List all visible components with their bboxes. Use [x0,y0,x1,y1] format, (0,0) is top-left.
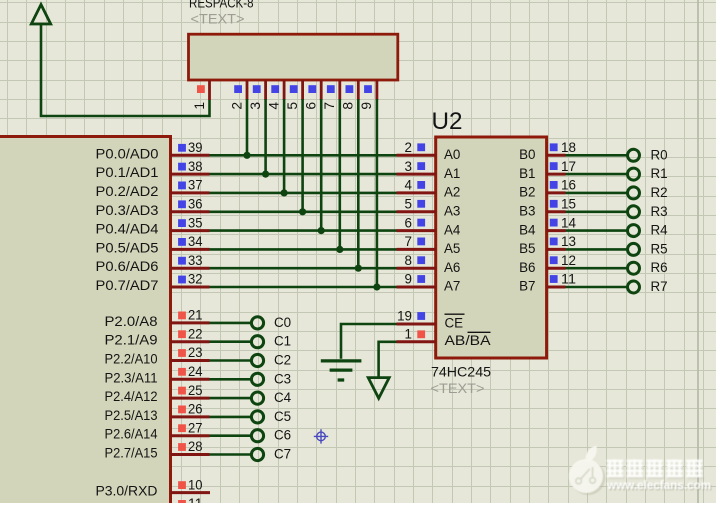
svg-text:P2.7/A15: P2.7/A15 [105,446,158,461]
svg-text:1: 1 [192,102,207,110]
svg-text:AB/BA: AB/BA [445,333,491,348]
RESPACK pin 2 square (blue) [234,85,242,93]
U2 pin 12 stub [547,267,566,270]
terminal circle C2 [251,354,263,366]
U2 pin 17 square (blue) [550,162,558,170]
svg-text:P2.3/A11: P2.3/A11 [105,370,158,385]
junction node [355,265,362,272]
wire RESPACK pin 3 down to bus row [264,99,267,174]
RESPACK pin 5 square (blue) [290,85,298,93]
wire B0 to terminal R0 [566,154,627,157]
svg-text:A2: A2 [444,185,460,200]
svg-text:C6: C6 [274,428,291,443]
MCU pin 22 square (red) [178,330,186,338]
svg-text:11: 11 [188,496,203,503]
MCU pin 32 stub [171,286,210,289]
U2 pin 8 square (blue) [417,256,425,264]
svg-text:C7: C7 [274,447,291,462]
U2 pin 9 stub [397,286,436,289]
U2 pin 19 stub (CE) [397,323,436,326]
U2 pin 6 stub [397,229,436,232]
RESPACK pin 1 stub [208,80,211,100]
sheet edge line [697,0,699,503]
svg-text:R0: R0 [651,147,668,162]
svg-text:P2.5/A13: P2.5/A13 [105,408,158,423]
terminal circle R2 [628,187,640,199]
RESPACK pin 4 stub [283,80,286,100]
svg-text:B2: B2 [519,185,535,200]
MCU pin 38 square (blue) [178,163,186,171]
junction node [262,171,269,178]
wire P0.0 to U2 A0 [210,154,397,157]
svg-text:13: 13 [561,234,576,249]
U2 pin 13 square (blue) [550,238,558,246]
svg-text:A4: A4 [444,222,461,237]
U2 pin 4 square (blue) [417,181,425,189]
U2 pin 19 square (blue) [417,312,425,320]
MCU pin 38 stub [171,173,210,176]
svg-text:C0: C0 [274,315,291,330]
svg-text:21: 21 [188,308,203,323]
svg-text:R2: R2 [651,185,668,200]
svg-text:B3: B3 [519,204,535,219]
svg-text:33: 33 [188,253,203,268]
svg-text:14: 14 [561,215,577,230]
svg-text:2: 2 [229,102,244,110]
wire P0.6 to U2 A6 [210,267,397,270]
U2 pin 7 stub [397,248,436,251]
svg-text:11: 11 [561,272,576,287]
U2 pin 7 square (blue) [417,238,425,246]
RESPACK pin 3 stub [264,80,267,100]
MCU pin 33 stub [171,267,210,270]
MCU pin 26 stub [171,415,210,418]
svg-text:R7: R7 [651,279,668,294]
RESPACK pin 1 square (red) [197,85,205,93]
U2 pin 3 stub [397,173,436,176]
MCU pin 23 stub [171,359,210,362]
RESPACK pin 5 stub [301,80,304,100]
svg-text:28: 28 [188,439,203,454]
svg-text:A0: A0 [444,147,460,162]
wire P2.7 to terminal C7 [210,453,251,456]
U2 pin 12 square (blue) [550,256,558,264]
svg-text:C3: C3 [274,371,291,386]
RESPACK pin 8 square (blue) [346,85,354,93]
RESPACK pin 7 square (blue) [327,85,335,93]
MCU pin 37 stub [171,191,210,194]
svg-text:34: 34 [188,234,203,249]
U2 pin 16 square (blue) [550,181,558,189]
wire B4 to terminal R4 [566,229,627,232]
wire from power arrow to RESPACK pin 1 [41,24,210,116]
svg-text:B5: B5 [519,241,535,256]
MCU pin 25 stub [171,397,210,400]
svg-text:P0.6/AD6: P0.6/AD6 [96,259,159,274]
MCU pin 23 square (red) [178,349,186,357]
svg-text:38: 38 [188,159,203,174]
svg-text:P0.7/AD7: P0.7/AD7 [96,278,159,293]
power terminal arrow (top-left) [31,5,50,25]
svg-text:C1: C1 [274,334,291,349]
wire RESPACK pin 4 down to bus row [283,99,286,193]
wire RESPACK pin 7 down to bus row [338,99,341,249]
MCU pin 24 stub [171,378,210,381]
svg-text:5: 5 [405,197,412,212]
MCU chip U1 body (cropped at left/bottom) [0,137,171,508]
svg-text:5: 5 [285,102,300,110]
wire P2.0 to terminal C0 [210,322,251,325]
terminal circle R7 [628,281,640,293]
RESPACK pin 8 stub [357,80,360,100]
svg-text:B7: B7 [519,279,535,294]
MCU pin 36 square (blue) [178,200,186,208]
wire P2.2 to terminal C2 [210,359,251,362]
terminal circle C4 [251,392,263,404]
svg-text:37: 37 [188,178,203,193]
svg-text:A5: A5 [444,241,460,256]
U2 pin 14 stub [547,229,566,232]
MCU pin 28 stub [171,453,210,456]
terminal circle R5 [628,243,640,255]
svg-text:2: 2 [405,140,412,155]
U2 pin 17 stub [547,173,566,176]
wire P2.3 to terminal C3 [210,378,251,381]
wire P2.6 to terminal C6 [210,434,251,437]
wire B7 to terminal R7 [566,286,627,289]
terminal circle C3 [251,373,263,385]
MCU pin 37 square (blue) [178,182,186,190]
MCU pin 39 square (blue) [178,144,186,152]
MCU pin 21 stub [171,321,210,324]
MCU pin 10 stub [171,491,211,494]
MCU pin 36 stub [171,210,210,213]
svg-text:8: 8 [405,253,412,268]
svg-text:P2.0/A8: P2.0/A8 [105,314,158,329]
RESPACK pin 4 square (blue) [271,85,279,93]
MCU pin 25 square (red) [178,387,186,395]
svg-text:P0.5/AD5: P0.5/AD5 [96,240,159,255]
svg-text:3: 3 [248,102,263,110]
junction node [373,283,380,290]
MCU pin 34 stub [171,248,210,251]
terminal circle C6 [251,430,263,442]
svg-text:B6: B6 [519,260,535,275]
wire B3 to terminal R3 [566,211,627,214]
svg-text:<TEXT>: <TEXT> [191,11,245,26]
wire RESPACK pin 9 down to bus row [376,99,379,287]
U2 pin 3 square (blue) [417,162,425,170]
svg-text:P2.1/A9: P2.1/A9 [105,333,158,348]
svg-text:RESPACK-8: RESPACK-8 [189,0,254,11]
U2 pin 6 square (blue) [417,219,425,227]
U2 pin 18 stub [547,154,566,157]
svg-text:15: 15 [561,197,576,212]
svg-text:R3: R3 [651,204,668,219]
svg-text:R6: R6 [651,260,668,275]
U2 pin 5 stub [397,210,436,213]
MCU pin 24 square (red) [178,368,186,376]
svg-text:P0.0/AD0: P0.0/AD0 [96,146,159,161]
terminal circle R6 [628,262,640,274]
U2 pin 5 square (blue) [417,200,425,208]
U2 pin 9 square (blue) [417,275,425,283]
svg-text:9: 9 [405,272,412,287]
svg-text:B4: B4 [519,222,536,237]
RESPACK pin 6 square (blue) [308,85,316,93]
U2 pin 18 square (blue) [550,143,558,151]
svg-text:A7: A7 [444,279,460,294]
junction node [318,227,325,234]
svg-text:36: 36 [188,197,203,212]
svg-text:www.elecfans.com: www.elecfans.com [606,478,711,492]
svg-text:3: 3 [405,159,412,174]
wire P0.4 to U2 A4 [210,229,397,232]
svg-text:B0: B0 [519,147,535,162]
terminal circle R3 [628,206,640,218]
wire P0.5 to U2 A5 [210,248,397,251]
ground symbol [321,361,362,380]
wire P2.1 to terminal C1 [210,340,251,343]
wire pin19 to ground [341,324,397,359]
svg-text:17: 17 [561,159,576,174]
svg-text:12: 12 [561,253,576,268]
U2 pin 11 stub [547,286,566,289]
MCU pin 32 square (blue) [178,276,186,284]
svg-text:16: 16 [561,178,576,193]
MCU pin 26 square (red) [178,406,186,414]
svg-text:P0.4/AD4: P0.4/AD4 [96,222,160,237]
U2 pin 14 square (blue) [550,219,558,227]
wire P0.2 to U2 A2 [210,192,397,195]
svg-text:32: 32 [188,272,203,287]
U2 pin 11 square (blue) [550,275,558,283]
svg-text:P2.6/A14: P2.6/A14 [105,427,159,442]
svg-text:C4: C4 [274,390,292,405]
RESPACK pin 9 stub [375,80,378,100]
wire B5 to terminal R5 [566,248,627,251]
MCU pin 10 square (red) [178,481,186,489]
svg-text:18: 18 [561,140,576,155]
terminal circle R0 [628,149,640,161]
origin marker crosshair [314,429,328,443]
wire pin1 to arrow terminal [379,342,397,378]
svg-text:C5: C5 [274,409,291,424]
svg-text:8: 8 [341,102,356,110]
svg-text:4: 4 [405,178,413,193]
wire RESPACK pin 2 down to bus row [246,99,249,155]
MCU pin 27 square (red) [178,424,186,432]
junction node [281,189,288,196]
wire B2 to terminal R2 [566,192,627,195]
MCU pin 33 square (blue) [178,257,186,265]
MCU pin 35 square (blue) [178,219,186,227]
MCU pin 21 square (red) [178,312,186,320]
U2 pin 2 square (blue) [417,143,425,151]
MCU pin 28 square (red) [178,443,186,451]
wire P0.7 to U2 A7 [210,286,397,289]
svg-text:R4: R4 [651,223,669,238]
svg-text:B1: B1 [519,166,535,181]
terminal circle R4 [628,225,640,237]
MCU pin 11 square (red, clipped at bottom) [178,500,186,508]
svg-text:35: 35 [188,215,203,230]
svg-text:U2: U2 [432,108,463,135]
svg-text:CE: CE [445,316,464,331]
svg-text:7: 7 [405,234,412,249]
svg-text:26: 26 [188,402,203,417]
wire P0.1 to U2 A1 [210,173,397,176]
MCU pin 27 stub [171,434,210,437]
wire B1 to terminal R1 [566,173,627,176]
MCU pin 35 stub [171,229,210,232]
U2 pin 1 square (red) [417,330,425,338]
svg-text:P3.0/RXD: P3.0/RXD [96,484,158,499]
terminal circle C0 [251,317,263,329]
RESPACK pin 2 stub [246,80,249,100]
RESPACK pin 9 square (blue) [364,85,372,93]
junction node [243,152,250,159]
svg-text:9: 9 [359,102,374,110]
svg-text:4: 4 [266,102,281,110]
resistor pack RP1 RESPACK-8 body [189,34,398,80]
U2 pin 8 stub [397,267,436,270]
terminal circle C5 [251,411,263,423]
svg-text:7: 7 [322,102,337,110]
MCU pin 34 square (blue) [178,238,186,246]
U2 pin 16 stub [547,191,566,194]
junction node [299,208,306,215]
svg-text:P0.1/AD1: P0.1/AD1 [96,165,159,180]
U2 pin 13 stub [547,248,566,251]
svg-text:R5: R5 [651,241,668,256]
MCU pin 22 stub [171,340,210,343]
svg-text:<TEXT>: <TEXT> [431,381,485,396]
junction node [336,246,343,253]
svg-text:P0.2/AD2: P0.2/AD2 [96,184,159,199]
wire P2.5 to terminal C5 [210,416,251,419]
svg-text:25: 25 [188,383,203,398]
svg-text:39: 39 [188,140,203,155]
IC U2 74HC245 body [436,137,547,358]
svg-text:6: 6 [304,102,319,110]
svg-text:1: 1 [405,327,412,342]
wire RESPACK pin 6 down to bus row [320,99,323,231]
arrow terminal (down) [368,378,389,399]
RESPACK pin 7 stub [338,80,341,100]
svg-text:6: 6 [405,215,412,230]
svg-text:A1: A1 [444,166,460,181]
U2 pin 15 stub [547,210,566,213]
RESPACK pin 3 square (blue) [253,85,261,93]
RESPACK pin 6 stub [320,80,323,100]
svg-text:R1: R1 [651,166,668,181]
svg-text:27: 27 [188,420,203,435]
wire RESPACK pin 8 down to bus row [357,99,360,268]
MCU pin 39 stub [171,154,210,157]
wire B6 to terminal R6 [566,267,627,270]
U2 pin 15 square (blue) [550,200,558,208]
svg-text:23: 23 [188,345,203,360]
U2 pin 4 stub [397,191,436,194]
U2 pin 2 stub [397,154,436,157]
svg-text:P2.2/A10: P2.2/A10 [105,352,158,367]
wire P2.4 to terminal C4 [210,397,251,400]
svg-text:74HC245: 74HC245 [431,365,491,380]
svg-text:A3: A3 [444,204,460,219]
svg-text:C2: C2 [274,353,291,368]
svg-text:22: 22 [188,326,203,341]
svg-text:P0.3/AD3: P0.3/AD3 [96,203,159,218]
svg-text:P2.4/A12: P2.4/A12 [105,389,158,404]
terminal circle R1 [628,168,640,180]
terminal circle C1 [251,336,263,348]
wire RESPACK pin 5 down to bus row [301,99,304,212]
terminal circle C7 [251,448,263,460]
svg-text:19: 19 [397,309,412,324]
svg-text:10: 10 [188,477,203,492]
svg-text:A6: A6 [444,260,460,275]
U2 pin 1 stub (AB/BA) [397,340,436,343]
wire P0.3 to U2 A3 [210,211,397,214]
svg-text:24: 24 [188,364,203,379]
